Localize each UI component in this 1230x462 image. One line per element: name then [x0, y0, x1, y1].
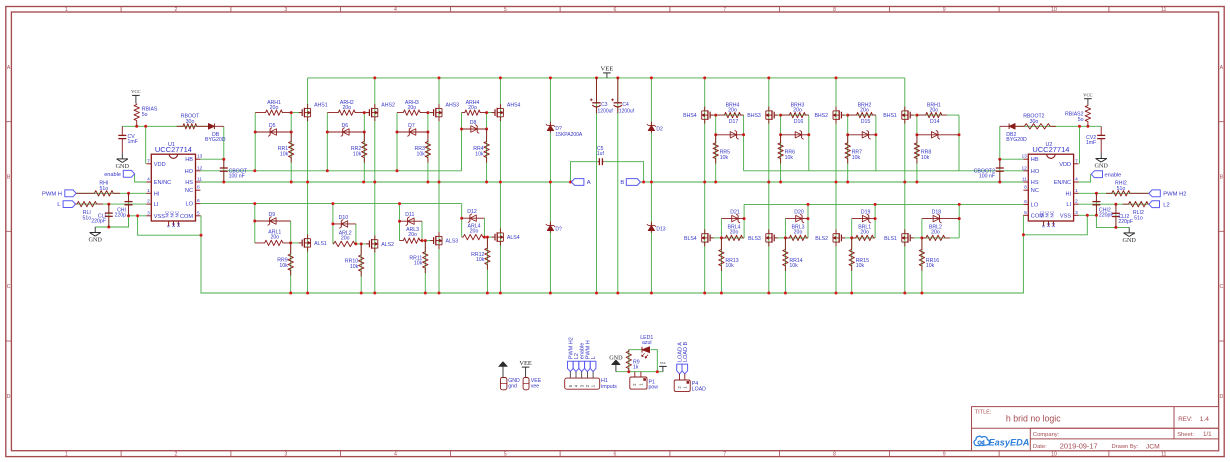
- junction bottom bus: [703, 292, 706, 295]
- svg-text:D12: D12: [467, 209, 477, 215]
- svg-text:GND: GND: [1122, 237, 1136, 244]
- wire column B2 (drain-source vertical): [768, 78, 770, 293]
- svg-text:PWM H: PWM H: [42, 191, 62, 197]
- svg-text:.1uf: .1uf: [596, 151, 605, 157]
- port enable right: [1091, 171, 1102, 178]
- svg-text:20o: 20o: [931, 229, 940, 235]
- wire low loop left vertical ALS2: [332, 204, 334, 244]
- svg-text:AHS3: AHS3: [446, 103, 460, 109]
- resistor BRL2 20o: [922, 235, 950, 240]
- svg-text:A: A: [7, 65, 11, 71]
- ground GND right input: [1128, 227, 1130, 233]
- svg-text:NC: NC: [1031, 188, 1039, 194]
- junction bottom bus: [850, 292, 853, 295]
- junction D8 left: [460, 128, 463, 131]
- diode D7: [397, 131, 428, 133]
- resistor RBOOT 30o: [177, 124, 205, 129]
- junction LO2 line: [874, 203, 877, 206]
- port LOAD A: [677, 364, 683, 374]
- capacitor CBOOT 100 nF: [223, 159, 225, 168]
- svg-text:20o: 20o: [408, 232, 417, 238]
- transistor ALS1: [307, 234, 309, 238]
- junction D19 right: [874, 217, 877, 220]
- wire CLI vertical: [108, 204, 110, 227]
- svg-text:BHS2: BHS2: [814, 113, 828, 119]
- connector GND gnd: [500, 378, 507, 390]
- junction bottom bus: [650, 292, 653, 295]
- svg-text:20o: 20o: [728, 108, 737, 114]
- svg-text:HO: HO: [185, 169, 194, 175]
- svg-text:L2: L2: [1163, 202, 1169, 208]
- svg-text:10k: 10k: [725, 263, 734, 269]
- wire gate loop right vertical BHS4: [743, 115, 745, 171]
- svg-text:1.4: 1.4: [1200, 416, 1209, 423]
- junction VDD riser U2: [1078, 125, 1081, 128]
- capacitor CBOOT2 100 nF: [999, 159, 1001, 168]
- svg-text:51o: 51o: [82, 216, 91, 222]
- junction gate BLS1: [920, 236, 923, 239]
- junction bottom bus: [595, 292, 598, 295]
- transistor BHS3: [768, 107, 770, 111]
- svg-text:2019-09-17: 2019-09-17: [1060, 441, 1098, 450]
- wire CLI ground run: [95, 216, 128, 227]
- svg-text:20o: 20o: [407, 105, 416, 111]
- svg-text:20o: 20o: [793, 108, 802, 114]
- resistor BRH2 20o: [848, 112, 876, 117]
- capacitor C5 .1uf: [598, 161, 600, 163]
- wire gate node ALS4: [484, 236, 495, 238]
- svg-text:pow: pow: [649, 385, 659, 391]
- port L2: [1149, 201, 1160, 208]
- svg-text:7: 7: [723, 451, 726, 457]
- junction D20 right: [807, 217, 810, 220]
- wire VSS net right: [1079, 214, 1097, 216]
- svg-text:ALS3: ALS3: [446, 239, 459, 245]
- wire R9 branch: [629, 350, 642, 372]
- wire gate node BLS2: [841, 237, 851, 239]
- op-amp driver U1 UCC27714: [151, 154, 195, 221]
- junction LI2/CLI2: [1114, 203, 1117, 206]
- transistor BHS4: [704, 107, 706, 111]
- resistor ARL3 20o: [400, 238, 423, 243]
- svg-text:D13: D13: [656, 227, 665, 233]
- wire low loop left vertical ALS4: [461, 204, 463, 238]
- diode D12: [462, 217, 485, 219]
- svg-text:20o: 20o: [929, 108, 938, 114]
- capacitor CV2 1mF: [1100, 126, 1102, 135]
- wire CHI vertical: [128, 193, 130, 216]
- wire gate node AHS3: [428, 112, 434, 114]
- svg-text:EN/NC: EN/NC: [154, 180, 171, 186]
- svg-text:1200uf: 1200uf: [619, 108, 635, 114]
- junction gate ALS1: [289, 241, 292, 244]
- wire VEE top bus: [308, 77, 905, 79]
- resistor BRH4 20o: [716, 112, 744, 117]
- resistor RR15 10k: [849, 238, 854, 271]
- wire RR10 vertical: [360, 244, 362, 293]
- resistor ARL4 20o: [462, 234, 485, 239]
- svg-text:220pF: 220pF: [1099, 213, 1114, 219]
- junction bottom bus: [289, 292, 292, 295]
- junction gate BHS2: [846, 114, 849, 117]
- wire gate node BLS4: [710, 237, 721, 239]
- junction D15 right: [874, 133, 877, 136]
- svg-text:1: 1: [65, 7, 68, 13]
- svg-text:6: 6: [197, 198, 200, 204]
- diode D11: [400, 220, 423, 222]
- svg-text:9: 9: [943, 451, 946, 457]
- svg-text:10: 10: [1051, 7, 1057, 13]
- capacitor C3 1200uf: [596, 78, 598, 103]
- junction bottom bus: [438, 292, 441, 295]
- wire HI U2 to PWM H2: [1079, 192, 1149, 194]
- wire C4 column: [617, 78, 619, 293]
- svg-text:B: B: [620, 180, 624, 186]
- wire gate node BHS2: [841, 114, 847, 116]
- junction HI2/CHI2: [1095, 192, 1098, 195]
- diode D5: [255, 131, 291, 133]
- svg-text:D15: D15: [861, 119, 871, 125]
- junction node B line: [650, 181, 653, 184]
- resistor RBIAS 5o: [134, 104, 139, 127]
- junction node B line: [767, 181, 770, 184]
- svg-text:VSS: VSS: [1060, 213, 1071, 219]
- diode D18: [922, 218, 959, 220]
- wire CLI2 vertical: [1115, 204, 1117, 227]
- svg-text:20o: 20o: [342, 105, 351, 111]
- wire RR7 vertical: [847, 115, 849, 182]
- resistor RBOOT2 30o: [1019, 124, 1056, 129]
- svg-text:HB: HB: [1031, 157, 1039, 163]
- wire RR3 vertical: [427, 113, 429, 182]
- wire C5 branch to node B: [604, 162, 644, 182]
- junction D14 right: [958, 133, 961, 136]
- resistor RR2 10k: [362, 132, 367, 163]
- svg-text:10k: 10k: [720, 155, 729, 161]
- transistor ALS3: [438, 232, 440, 236]
- diode D21: [721, 218, 744, 220]
- junction gate AHS1: [290, 111, 293, 114]
- junction node B line: [703, 181, 706, 184]
- svg-text:REV:: REV:: [1178, 416, 1192, 423]
- wire CBOOT vertical: [223, 159, 225, 182]
- transistor AHS3: [438, 104, 440, 108]
- wire low loop left vertical ALS1: [254, 204, 256, 243]
- port enable into H1: [579, 361, 585, 371]
- diode D15: [848, 134, 876, 136]
- svg-text:20o: 20o: [794, 229, 803, 235]
- junction gate BHS4: [714, 114, 717, 117]
- wire resistor row BLS4: [721, 237, 744, 239]
- resistor RR14 10k: [783, 238, 788, 271]
- svg-text:4: 4: [147, 177, 150, 183]
- svg-text:11: 11: [1161, 451, 1166, 457]
- wire RR14 vertical: [784, 238, 786, 293]
- svg-text:NC: NC: [174, 210, 179, 217]
- svg-text:COM: COM: [180, 214, 193, 220]
- wire COM drop U1: [199, 216, 202, 235]
- svg-text:D: D: [7, 394, 11, 400]
- wire RBOOT2-RBIAS2 row right: [1016, 125, 1101, 127]
- junction bottom bus: [920, 292, 923, 295]
- svg-text:LO: LO: [1031, 202, 1039, 208]
- svg-text:3: 3: [1075, 210, 1078, 216]
- resistor BRL4 20o: [721, 235, 744, 240]
- junction D7 right: [426, 131, 429, 134]
- junction bottom bus: [424, 292, 427, 295]
- wire CBOOT2 vertical: [999, 159, 1001, 182]
- ground flag GND connector: [499, 362, 507, 367]
- svg-text:D17: D17: [729, 119, 739, 125]
- resistor ARH4 20o: [462, 110, 487, 115]
- svg-text:8: 8: [197, 185, 200, 191]
- junction node A line: [306, 181, 309, 184]
- wire VDD riser U1: [145, 126, 147, 164]
- junction R9 bottom: [627, 370, 630, 373]
- wire LED loop: [616, 371, 663, 373]
- junction node A line: [426, 181, 429, 184]
- svg-text:2: 2: [175, 7, 178, 13]
- resistor ARL2 20o: [333, 241, 356, 246]
- wire LI U2 to L2: [1079, 203, 1149, 205]
- svg-text:11: 11: [197, 177, 202, 183]
- wire RR15 vertical: [851, 238, 853, 293]
- svg-text:20o: 20o: [470, 229, 479, 235]
- svg-text:14: 14: [176, 222, 181, 227]
- wire gate node AHS4: [487, 112, 495, 114]
- resistor RR3 10k: [425, 132, 430, 163]
- junction D12 left: [460, 217, 463, 220]
- svg-text:LOAD B: LOAD B: [683, 341, 689, 362]
- wire DB cathode drop: [223, 126, 225, 159]
- junction D16 right: [807, 133, 810, 136]
- svg-text:EasyEDA: EasyEDA: [989, 437, 1030, 447]
- resistor RBIAS2 5o: [1085, 105, 1090, 127]
- junction node A line: [290, 181, 293, 184]
- svg-text:7: 7: [723, 7, 726, 13]
- ground GND left input: [94, 227, 96, 233]
- svg-text:BLS2: BLS2: [815, 236, 828, 242]
- junction D14 left: [915, 133, 918, 136]
- junction CLI ground: [107, 226, 110, 229]
- resistor RR9 10k: [288, 243, 293, 276]
- svg-text:15KPA200A: 15KPA200A: [555, 132, 583, 138]
- svg-text:C: C: [1220, 284, 1224, 290]
- svg-text:B: B: [7, 175, 11, 181]
- resistor RR12 10k: [485, 237, 490, 270]
- svg-text:BHS4: BHS4: [683, 113, 697, 119]
- junction RR10 top: [360, 242, 363, 245]
- junction bottom bus: [903, 292, 906, 295]
- svg-text:LOAD: LOAD: [692, 387, 706, 393]
- svg-text:VEE: VEE: [600, 66, 613, 73]
- svg-text:azul: azul: [642, 340, 652, 346]
- svg-text:vcc: vcc: [660, 360, 666, 365]
- svg-text:D19: D19: [861, 209, 871, 215]
- svg-text:3: 3: [147, 210, 150, 216]
- wire RR1 vertical: [290, 113, 292, 182]
- junction CLI2 ground: [1114, 226, 1117, 229]
- wire resistor row BLS3: [785, 237, 808, 239]
- svg-text:4: 4: [394, 451, 397, 457]
- junction gate AHS3: [426, 111, 429, 114]
- wire TVS column left: [549, 78, 551, 293]
- svg-text:D18: D18: [932, 209, 942, 215]
- svg-text:VCC: VCC: [131, 89, 140, 94]
- transistor AHS2: [374, 104, 376, 108]
- TVS diode D13 lower right: [650, 222, 652, 233]
- resistor RR7 10k: [845, 135, 850, 164]
- ground GND under CV: [121, 153, 123, 159]
- wire RR5 vertical: [715, 115, 717, 182]
- EasyEDA logo: [974, 436, 989, 445]
- svg-text:GND: GND: [88, 237, 102, 244]
- wire column A4 (drain-source vertical): [499, 78, 501, 293]
- resistor RR4 10k: [484, 129, 489, 163]
- svg-text:1mF: 1mF: [1086, 140, 1096, 146]
- junction node A line: [485, 181, 488, 184]
- svg-text:enable: enable: [104, 172, 121, 178]
- svg-text:A: A: [587, 180, 591, 186]
- resistor RR8 10k: [914, 135, 919, 164]
- port L2 into H1: [573, 361, 579, 371]
- wire enable to EN/NC U1: [135, 174, 147, 182]
- wire VDD riser U2: [1079, 126, 1081, 164]
- svg-text:GND: GND: [1094, 163, 1108, 170]
- wire CLI2 ground run: [1096, 215, 1129, 227]
- wire RR2 vertical: [363, 113, 365, 182]
- wire gate node BHS4: [710, 114, 716, 116]
- junction top bus: [650, 76, 653, 79]
- wire DB2 cathode drop: [999, 126, 1001, 159]
- svg-text:AHS4: AHS4: [507, 103, 521, 109]
- junction node A line: [362, 181, 365, 184]
- junction HO line: [396, 169, 399, 172]
- wire RR9 vertical: [290, 243, 292, 293]
- transistor BLS3: [768, 229, 770, 233]
- wire low loop right vertical BLS4: [743, 204, 745, 238]
- wire L to LI U1: [76, 203, 147, 205]
- wire RR13 vertical: [720, 238, 722, 293]
- svg-text:51o: 51o: [1134, 216, 1143, 222]
- svg-text:D11: D11: [405, 212, 414, 218]
- svg-text:20o: 20o: [860, 108, 869, 114]
- wire low loop right vertical BLS3: [807, 204, 809, 238]
- svg-text:NC: NC: [185, 188, 193, 194]
- svg-text:12: 12: [1021, 165, 1027, 171]
- svg-text:10k: 10k: [785, 155, 794, 161]
- svg-text:ALS2: ALS2: [381, 242, 394, 248]
- wire column B3 (drain-source vertical): [835, 78, 837, 293]
- svg-text:UCC27714: UCC27714: [155, 145, 192, 154]
- svg-text:5o: 5o: [1078, 117, 1084, 123]
- transistor AHS1: [307, 104, 309, 108]
- transistor BLS1: [904, 229, 906, 233]
- wire HS / node A line: [200, 181, 571, 183]
- wire node B line: [640, 181, 1023, 183]
- junction D15 left: [846, 133, 849, 136]
- svg-text:2: 2: [147, 199, 150, 205]
- svg-text:D10: D10: [339, 215, 349, 221]
- wire RR4 vertical: [486, 113, 488, 182]
- svg-text:10k: 10k: [856, 263, 865, 269]
- svg-text:Date:: Date:: [1033, 444, 1047, 450]
- wire D11 right corner: [421, 221, 423, 240]
- wire resistor row BHS3: [781, 114, 809, 116]
- svg-text:1mF: 1mF: [128, 139, 138, 145]
- junction gate BHS3: [779, 114, 782, 117]
- wire VSS branch down left: [138, 216, 201, 235]
- junction node B line: [779, 181, 782, 184]
- junction bottom bus: [549, 292, 552, 295]
- junction LO2 line: [958, 203, 961, 206]
- svg-text:D21: D21: [730, 209, 740, 215]
- svg-text:h brid no logic: h brid no logic: [1006, 414, 1061, 424]
- junction LO line: [331, 202, 334, 205]
- junction D16 left: [779, 133, 782, 136]
- junction D6 left: [326, 131, 329, 134]
- junction HB2/CBOOT2: [998, 158, 1001, 161]
- transistor AHS4: [499, 104, 501, 108]
- svg-text:20o: 20o: [730, 229, 739, 235]
- junction LO line: [253, 202, 256, 205]
- svg-text:5: 5: [504, 451, 507, 457]
- junction HB/CBOOT: [222, 158, 225, 161]
- wire gate loop left vertical AHS1: [254, 113, 256, 171]
- resistor RHI2 51o: [1106, 191, 1149, 196]
- resistor RLI2 51o: [1123, 202, 1149, 207]
- connector VEE vee: [523, 378, 529, 390]
- wire gate loop left vertical AHS4: [461, 113, 463, 171]
- junction gate ALS3: [421, 239, 424, 242]
- wire D18 left corner: [921, 219, 923, 238]
- junction bottom bus: [616, 292, 619, 295]
- wire column B4 (drain-source vertical): [904, 78, 906, 293]
- svg-text:7: 7: [1075, 158, 1078, 164]
- resistor ARH1 20o: [255, 110, 291, 115]
- wire RR12 vertical: [486, 237, 488, 293]
- resistor RR10 10k: [359, 244, 364, 277]
- junction node B line: [714, 181, 717, 184]
- svg-text:ALS1: ALS1: [314, 241, 327, 247]
- svg-text:8: 8: [833, 451, 836, 457]
- wire gate loop left vertical AHS3: [396, 113, 398, 171]
- svg-text:BLS4: BLS4: [684, 236, 697, 242]
- junction gate BHS1: [915, 114, 918, 117]
- svg-text:D7: D7: [408, 123, 415, 129]
- wire RR11 vertical: [424, 241, 426, 293]
- wire gate loop right vertical BHS3: [808, 115, 810, 171]
- junction bottom bus: [486, 292, 489, 295]
- resistor R9 1k: [626, 350, 631, 372]
- svg-text:220pF: 220pF: [1118, 219, 1133, 225]
- capacitor CHI 220p: [128, 193, 130, 201]
- svg-text:BHS1: BHS1: [883, 113, 897, 119]
- svg-text:10k: 10k: [353, 152, 362, 158]
- resistor RR16 10k: [919, 238, 924, 271]
- junction bottom bus: [306, 292, 309, 295]
- junction HO line: [326, 169, 329, 172]
- wire D10 right corner: [355, 224, 357, 244]
- junction LED vcc corner: [656, 370, 659, 373]
- junction bottom bus: [373, 292, 376, 295]
- junction gate AHS4: [485, 111, 488, 114]
- svg-text:TITLE:: TITLE:: [975, 409, 992, 415]
- svg-text:D20: D20: [794, 209, 804, 215]
- svg-text:9: 9: [943, 7, 946, 13]
- junction bottom bus: [360, 292, 363, 295]
- capacitor C4 1200uf: [617, 78, 619, 103]
